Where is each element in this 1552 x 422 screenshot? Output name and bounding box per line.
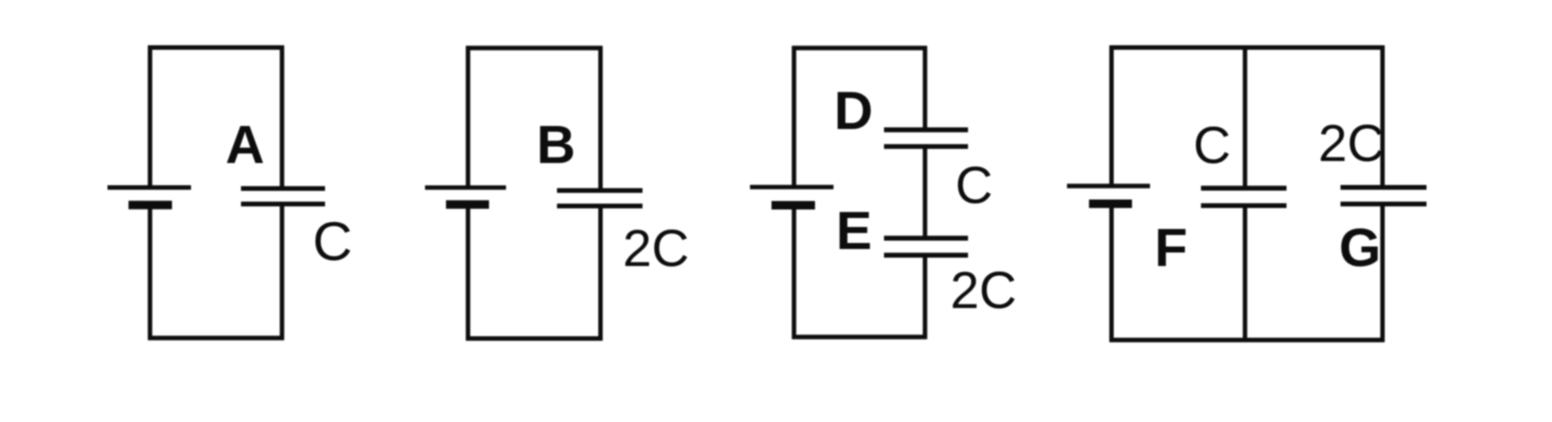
svg-text:2C: 2C [1318,115,1384,173]
wire bottom (circuit A) [148,336,284,340]
wire right lower (circuit DE) [923,257,927,339]
svg-text:A: A [226,115,265,175]
battery (circuit A) [108,188,192,206]
wire right upper (circuit A) [280,46,284,187]
wire top (circuit FG) [1110,45,1385,49]
svg-text:G: G [1339,218,1381,278]
svg-text:C: C [955,157,993,215]
wire bottom (circuit B) [466,336,603,340]
svg-text:D: D [834,81,873,141]
battery (circuit DE) [750,187,834,205]
svg-text:E: E [836,201,872,261]
wire right lower (circuit A) [280,206,284,340]
svg-text:C: C [313,210,353,272]
wire right lower (circuit B) [598,208,602,341]
svg-text:F: F [1155,218,1188,278]
wire middle lower (circuit FG) [1243,208,1247,341]
wire right middle (circuit DE) [923,149,927,237]
svg-text:2C: 2C [950,262,1016,320]
capacitor 2C (circuit B) [557,191,643,207]
wire left lower (circuit B) [466,208,470,341]
wire top (circuit DE) [792,46,927,50]
svg-text:2C: 2C [623,220,689,278]
svg-text:C: C [1193,117,1231,175]
wire bottom (circuit FG) [1110,338,1385,342]
wire right upper (circuit B) [598,46,602,189]
wire right upper (circuit FG) [1380,46,1384,186]
wire left upper (circuit FG) [1109,46,1113,185]
wire top (circuit A) [148,45,284,49]
wire bottom (circuit DE) [792,335,927,339]
capacitor C (circuit A) [241,189,325,205]
capacitor D [884,130,968,147]
wire left upper (circuit B) [466,46,470,186]
wire left lower (circuit FG) [1109,207,1113,342]
battery (circuit B) [425,188,506,205]
wire right lower (circuit FG) [1380,206,1384,342]
wire middle upper (circuit FG) [1243,48,1247,187]
capacitor E [884,238,968,255]
capacitor C (circuit FG) [1201,188,1287,205]
wire right upper (circuit DE) [923,46,927,128]
svg-text:B: B [537,115,576,175]
wire left upper (circuit A) [148,46,152,187]
wire top (circuit B) [466,46,603,50]
wire left lower (circuit A) [148,208,152,340]
wire left lower (circuit DE) [792,209,796,340]
battery (circuit FG) [1067,186,1150,204]
capacitor 2C (circuit FG) [1341,187,1427,204]
wire left upper (circuit DE) [792,46,796,186]
